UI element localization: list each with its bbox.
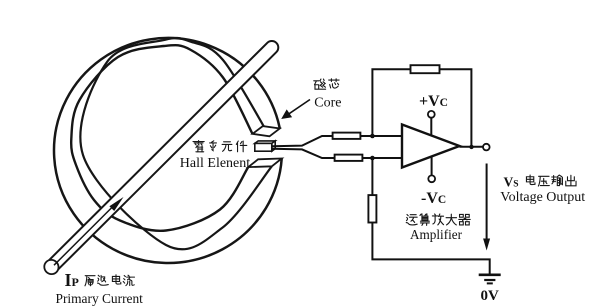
svg-text:Voltage Output: Voltage Output bbox=[500, 190, 585, 205]
svg-text:Core: Core bbox=[314, 96, 341, 111]
svg-text:Hall Elenent: Hall Elenent bbox=[180, 156, 250, 171]
svg-text:0V: 0V bbox=[481, 288, 500, 304]
svg-text:Amplifier: Amplifier bbox=[410, 227, 463, 242]
svg-text:Primary Current: Primary Current bbox=[56, 291, 144, 306]
